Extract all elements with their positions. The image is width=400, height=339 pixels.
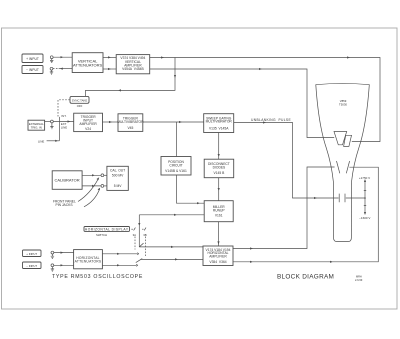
wire attenuator to vertical amplifier (lower) [103,68,116,70]
horizontal display switch wiper [138,215,140,247]
switch wiper to horizontal amplifier [136,259,142,263]
connector jack J2 circle [50,67,53,70]
wire sweep to display switch (upper) [139,214,204,216]
connector jack J1 circle [50,56,53,59]
svg-text:DIODES: DIODES [213,166,226,170]
wire: unblanking pulse to CRT grid [234,123,339,199]
svg-text:CALIBRATOR: CALIBRATOR [54,178,79,183]
wire calibrator to cal out jack upper [82,174,101,176]
connector J4 (+input horiz) label box [23,250,42,257]
wire sweep gating to disconnect diodes [218,133,220,160]
connector jack J3 circle [51,120,54,123]
svg-text:3A: 3A [133,233,137,237]
wire to position circuit [176,122,178,157]
svg-text:MULTIVIBRATOR: MULTIVIBRATOR [206,120,233,124]
block: trigger input amplifier [74,113,103,131]
svg-text:AMPLIFIER: AMPLIFIER [79,122,97,126]
wire attenuator to vertical amplifier (upper) [103,56,116,58]
wire position circuit to miller runup [177,175,205,203]
wire attenuator to switch contact A [102,253,137,255]
svg-text:CIRCUIT: CIRCUIT [169,163,182,167]
svg-text:V161: V161 [215,214,223,218]
dashed linkage take-off to INT contact [58,100,70,117]
HV supply line [364,181,366,214]
wire J1 to vertical attenuator [53,56,72,58]
connector jack J5 circle [51,264,54,267]
svg-text:V454A V454B: V454A V454B [122,67,144,71]
svg-text:AMPLIFIER: AMPLIFIER [209,255,227,259]
ground at J3 [50,123,53,129]
svg-text:ATTENUATORS: ATTENUATORS [73,62,102,67]
vertical deflection plates [334,132,347,145]
svg-text:+ INPUT: + INPUT [26,57,39,61]
svg-text:V24: V24 [85,127,91,131]
block: disconnect diodes [204,159,234,178]
svg-text:BLOCK DIAGRAM: BLOCK DIAGRAM [277,273,334,280]
svg-text:RUNUP: RUNUP [213,208,226,212]
svg-text:V135 V145A: V135 V145A [209,127,229,131]
wire trig multivibrator to sweep gating [143,121,204,123]
switch position contacts 3A 3B [131,228,135,231]
dashed switch linkage lines [134,237,136,250]
CRT grid/cathode [339,194,345,203]
svg-text:CAL. OUT: CAL. OUT [110,168,125,172]
block: horizontal amplifier [203,246,233,266]
svg-text:SWITCH: SWITCH [96,233,107,237]
svg-text:OFF: OFF [77,104,83,108]
connector J5 (-input horiz) label box [23,262,42,269]
svg-text:2-6-59: 2-6-59 [355,279,363,282]
svg-text:TYPE RM503 OSCILLOSCOPE: TYPE RM503 OSCILLOSCOPE [52,274,143,280]
wire: horizontal amp upper output to CRT left loop [233,167,335,249]
svg-text:T5030: T5030 [339,102,347,106]
block: horizontal attenuators [74,250,103,269]
block: cal out [107,166,128,190]
wire attenuator to switch contact B [102,264,136,266]
horizontal deflection plates [337,161,340,173]
svg-text:V354 V364: V354 V364 [209,260,226,264]
wire display switch to horizontal amplifier [139,246,203,248]
arrow to pin jack lower [84,189,100,207]
wire miller runup to horizontal amplifier [218,222,220,246]
svg-text:ATTENUATORS: ATTENUATORS [75,259,102,263]
wire disconnect diodes to miller runup [218,178,220,201]
svg-text:UNBLANKING PULSE: UNBLANKING PULSE [251,118,291,122]
block: miller runup [204,201,233,222]
block: trigger take-off [70,96,89,108]
block: vertical amplifier [116,55,150,74]
arrow to pin jack upper [78,179,98,202]
svg-text:LINE: LINE [61,126,67,130]
wire trig amp to trig multivibrator [103,121,119,123]
svg-text:INT.: INT. [61,114,66,118]
svg-text:SYNC TAKE: SYNC TAKE [72,99,88,103]
wire: trigger take-off from upper output [86,58,176,97]
wire: vertical amp lower output to CRT left loop [150,69,335,138]
connector J1 (+input vert) label box [22,54,43,63]
svg-text:V45: V45 [127,126,133,130]
svg-text:LINE: LINE [38,139,44,143]
ground at J1 [50,59,53,63]
svg-text:MULTIVIBRATOR: MULTIVIBRATOR [117,120,144,124]
svg-text:V145 B: V145 B [213,171,225,175]
block: sweep gating multivibrator [204,114,234,133]
svg-text:HORIZONTAL DISPLAY: HORIZONTAL DISPLAY [85,228,129,232]
svg-text:5 MV: 5 MV [114,184,122,188]
block: horizontal display switch label [84,227,130,237]
svg-text:−1600 V: −1600 V [359,216,370,220]
svg-text:V145B & V161: V145B & V161 [165,169,187,173]
svg-text:− INPUT: − INPUT [26,68,39,72]
svg-text:3B: 3B [143,233,147,237]
block: vertical attenuators [72,53,103,73]
connector jack J4 circle [51,251,54,254]
wire: vertical amp upper output to CRT right loop [150,58,380,142]
svg-text:500 MV: 500 MV [112,174,124,178]
wire J2 to vertical attenuator (dashed start, left arrow) [59,68,73,70]
svg-text:+1750 V: +1750 V [359,176,370,180]
svg-text:− INPUT: − INPUT [26,264,37,268]
block: trigger multivibrator [117,114,144,132]
block: calibrator [52,171,82,190]
block: position circuit [161,157,191,176]
CRT envelope [316,83,370,241]
ground at J2 [50,70,53,74]
connector J2 (-input vert) label box [22,66,43,74]
wire calibrator to cal out jack lower [82,185,101,187]
svg-text:TRIG. IN: TRIG. IN [31,126,42,130]
wire J5 to horizontal attenuator [54,264,74,266]
trigger source switch [53,121,73,123]
svg-text:PIN JACKS: PIN JACKS [56,203,74,207]
wire: horizontal amp lower output to CRT right loop [233,167,378,262]
svg-text:+ INPUT: + INPUT [26,252,37,256]
block: external trigger input [28,120,45,130]
wire J4 to horizontal attenuator [54,252,74,254]
